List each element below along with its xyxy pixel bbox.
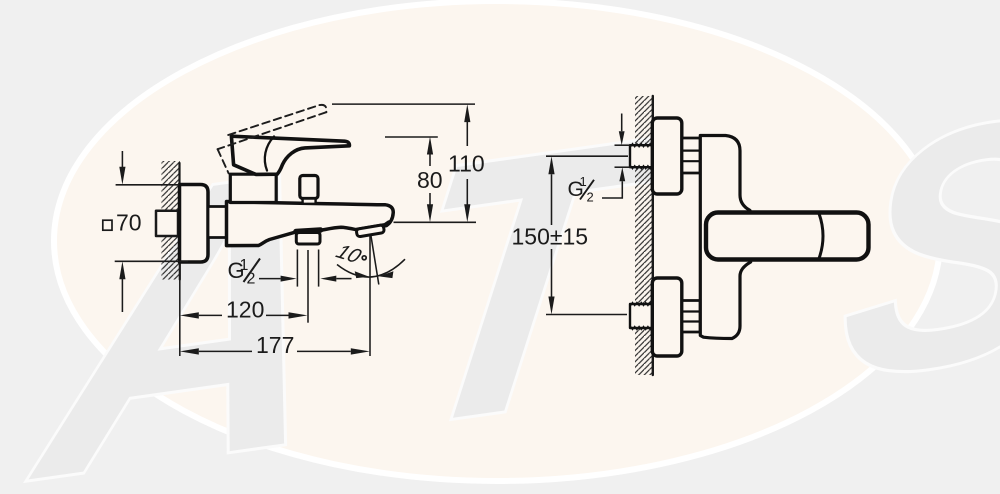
arrow G12 right [320, 276, 336, 282]
ext line handle top [385, 136, 438, 138]
dim line 120 [199, 314, 289, 316]
lever divider [819, 214, 823, 259]
top pipe threads [631, 144, 655, 169]
svg-text:1: 1 [580, 174, 587, 189]
wall plate escutcheon [180, 185, 209, 263]
body neck [208, 207, 227, 238]
arrowheads left view [119, 104, 470, 354]
ext line spout tip vertical [369, 236, 371, 356]
ext line top pipe center [546, 155, 628, 157]
arrow 177 right [351, 348, 370, 354]
spout angle line 10deg [371, 236, 379, 285]
faucet body right view [700, 136, 750, 339]
top nut [682, 138, 700, 173]
arrow G12 up [619, 167, 625, 181]
ext line outlet right [318, 250, 320, 287]
wall face line right [652, 96, 654, 375]
ext line outlet center [307, 250, 309, 323]
angle arc [337, 259, 405, 277]
svg-text:80: 80 [417, 167, 443, 193]
arrow angle right [379, 271, 394, 278]
bottom pipe threads [631, 302, 655, 329]
aerator [356, 225, 384, 237]
outlet thick top [296, 230, 321, 232]
svg-text:110: 110 [448, 150, 485, 176]
dashed handle raised position [218, 105, 327, 173]
dim line 177 [199, 350, 351, 352]
dim line 110 [466, 122, 468, 205]
arrow 80 bottom [427, 204, 433, 222]
arrow angle left [355, 271, 370, 278]
arrow 150 top [548, 156, 554, 174]
diverter knob [300, 176, 318, 199]
ext line bottom pipe center [546, 314, 627, 316]
right view texts [512, 174, 595, 250]
ext line dashed tip [332, 103, 475, 105]
arrow 80 top [427, 137, 433, 155]
ext line outlet left [296, 250, 298, 287]
faucet body with spout [227, 202, 394, 246]
arrow 70 bottom [119, 261, 125, 279]
svg-text:2: 2 [587, 190, 594, 205]
bottom nut flats [682, 312, 700, 322]
tick pipe top [615, 144, 631, 146]
ext line spout top [394, 221, 477, 223]
cartridge base [230, 174, 276, 202]
arrow line 70 top [121, 151, 123, 167]
dim line G12 right [336, 278, 351, 280]
top rosette [652, 118, 682, 194]
handle inner curve [265, 137, 274, 171]
dim line G12 left leader [259, 278, 281, 280]
right view arrowheads [548, 131, 625, 314]
G12 leader [602, 181, 622, 198]
arrow 177 left [180, 348, 199, 354]
arrow 110 top [464, 104, 470, 122]
top nut flats [682, 151, 700, 162]
spout tip thick underside [357, 223, 389, 230]
lever handle solid [231, 136, 349, 174]
arrow 120 left [180, 312, 199, 318]
svg-text:70: 70 [116, 210, 142, 236]
wall face line below plate [179, 262, 181, 280]
bottom pipe stub [630, 304, 653, 328]
wall hatch right [635, 96, 653, 375]
arrow line 70 bottom [121, 279, 123, 312]
diverter stem [303, 199, 316, 204]
arrow G12 left [281, 276, 297, 282]
ext line plate top [116, 184, 179, 186]
ext line plate bottom [115, 260, 188, 262]
bottom nut [682, 301, 700, 333]
G12 upper arrow line [621, 114, 623, 132]
wall hatch left [162, 161, 181, 280]
arrow G12 down [619, 131, 625, 145]
arrow 150 bottom [548, 297, 554, 315]
lever right view [706, 213, 869, 260]
ext line wall face [179, 264, 181, 357]
bottom rosette [652, 278, 682, 356]
left view texts [103, 150, 485, 358]
bottom outlet G1/2 [296, 233, 320, 245]
tick pipe bottom [615, 166, 631, 168]
square symbol [103, 220, 112, 230]
wall face line above plate [178, 163, 180, 185]
svg-text:177: 177 [256, 332, 294, 358]
svg-text:120: 120 [226, 297, 264, 323]
square union fitting [156, 211, 178, 236]
dim line 80 [429, 154, 431, 204]
dim line 150 [551, 174, 553, 296]
svg-text:150±15: 150±15 [512, 224, 589, 250]
arrow 110 bottom [464, 204, 470, 222]
top pipe stub [630, 145, 653, 167]
arrow 70 top [119, 167, 125, 185]
arrow 120 right [289, 312, 308, 318]
